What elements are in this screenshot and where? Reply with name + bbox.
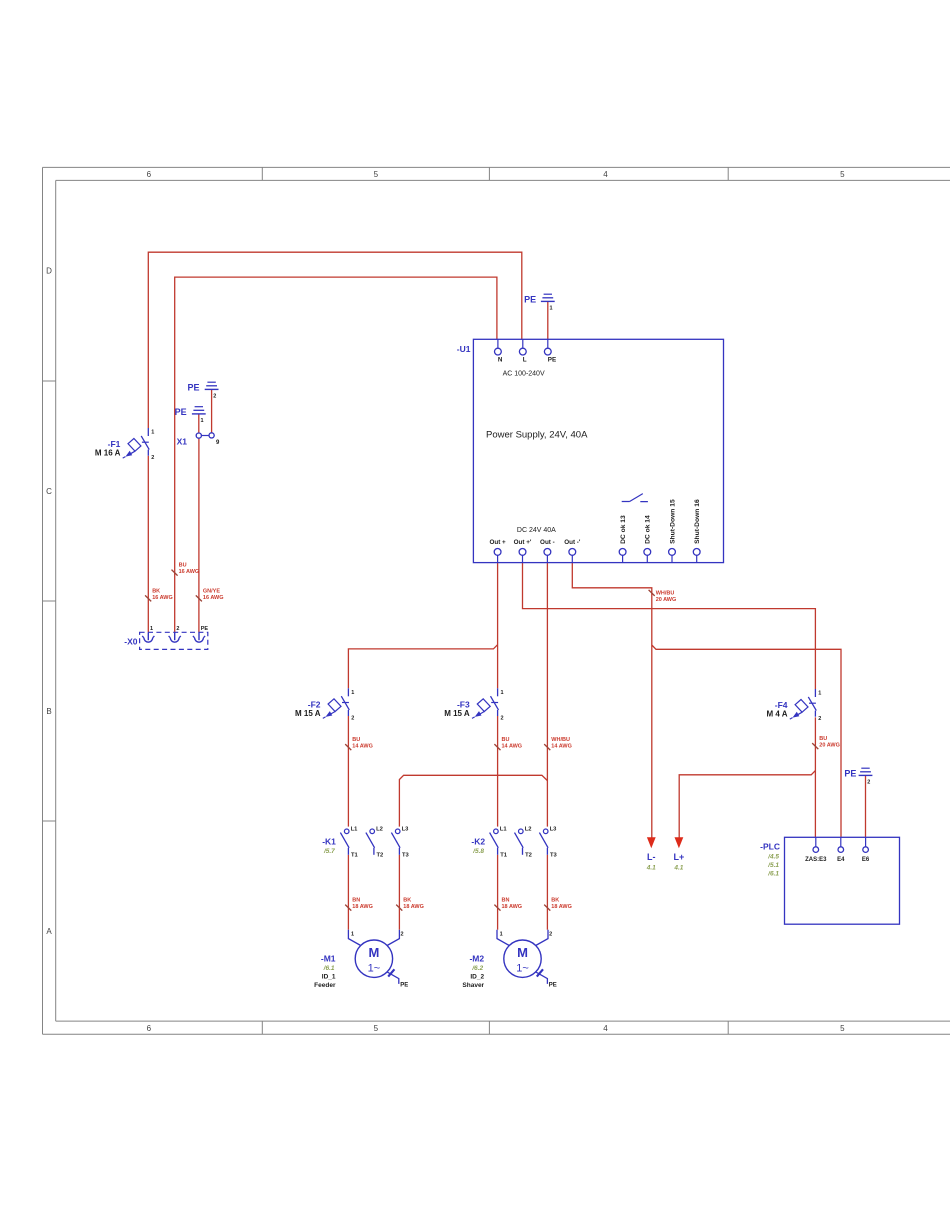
svg-text:Out -: Out - (540, 539, 555, 546)
svg-text:PE: PE (400, 983, 408, 989)
svg-text:L2: L2 (376, 827, 383, 833)
svg-text:4: 4 (603, 170, 608, 179)
svg-text:E4: E4 (837, 857, 845, 863)
svg-text:BK: BK (152, 589, 160, 595)
svg-text:BU: BU (819, 736, 827, 742)
svg-text:16 AWG: 16 AWG (179, 569, 200, 575)
svg-text:L1: L1 (500, 827, 508, 833)
svg-text:-F2: -F2 (308, 699, 321, 709)
svg-text:BU: BU (179, 563, 187, 569)
svg-text:T2: T2 (377, 853, 384, 859)
svg-text:Shaver: Shaver (462, 982, 484, 989)
svg-text:L3: L3 (550, 827, 558, 833)
svg-text:14 AWG: 14 AWG (551, 744, 572, 750)
svg-text:/6.1: /6.1 (323, 965, 335, 972)
svg-text:2: 2 (501, 715, 504, 721)
svg-text:1: 1 (201, 418, 204, 424)
svg-text:L2: L2 (525, 827, 532, 833)
svg-text:Shut-Down 15: Shut-Down 15 (669, 499, 676, 544)
svg-text:-F1: -F1 (108, 439, 121, 449)
svg-text:20 AWG: 20 AWG (656, 597, 677, 603)
svg-text:6: 6 (147, 170, 152, 179)
svg-text:PE: PE (524, 294, 536, 304)
svg-text:18 AWG: 18 AWG (502, 904, 523, 910)
svg-text:1: 1 (818, 691, 821, 697)
svg-text:-K1: -K1 (322, 837, 336, 847)
svg-text:A: A (46, 927, 52, 936)
svg-text:DC ok 14: DC ok 14 (645, 515, 652, 544)
svg-text:16 AWG: 16 AWG (203, 595, 224, 601)
svg-text:L-: L- (647, 852, 656, 862)
svg-text:WH/BU: WH/BU (551, 737, 570, 743)
svg-text:T2: T2 (525, 853, 532, 859)
svg-text:2: 2 (401, 932, 404, 938)
svg-text:1: 1 (500, 932, 503, 938)
svg-text:M: M (517, 945, 528, 960)
svg-text:PE: PE (187, 382, 199, 392)
svg-text:1~: 1~ (368, 962, 381, 974)
svg-text:DC 24V 40A: DC 24V 40A (517, 527, 556, 534)
svg-text:BN: BN (352, 898, 360, 904)
svg-text:/6.1: /6.1 (767, 870, 779, 877)
svg-text:M 4 A: M 4 A (766, 710, 787, 719)
svg-text:5: 5 (374, 170, 379, 179)
svg-text:2: 2 (351, 715, 354, 721)
svg-text:PE: PE (549, 983, 557, 989)
svg-text:-K2: -K2 (471, 837, 485, 847)
svg-text:20 AWG: 20 AWG (819, 743, 840, 749)
svg-text:1: 1 (351, 932, 354, 938)
svg-text:4: 4 (603, 1024, 608, 1033)
svg-text:BK: BK (551, 898, 559, 904)
svg-text:Out +': Out +' (514, 539, 532, 546)
svg-text:4.1: 4.1 (673, 864, 683, 871)
svg-text:2: 2 (213, 394, 216, 400)
svg-text:5: 5 (840, 1024, 845, 1033)
svg-text:5: 5 (374, 1024, 379, 1033)
svg-text:ZAS:E3: ZAS:E3 (805, 857, 827, 863)
svg-text:-X0: -X0 (124, 637, 138, 647)
svg-text:/5.1: /5.1 (767, 862, 779, 869)
svg-text:PE: PE (548, 357, 556, 364)
svg-text:BU: BU (502, 737, 510, 743)
svg-text:Out -': Out -' (564, 539, 581, 546)
svg-text:E6: E6 (862, 857, 870, 863)
svg-text:/5.7: /5.7 (323, 848, 335, 855)
svg-text:DC ok 13: DC ok 13 (620, 515, 627, 544)
svg-text:18 AWG: 18 AWG (352, 904, 373, 910)
svg-text:T3: T3 (550, 853, 558, 859)
svg-text:-PLC: -PLC (760, 841, 780, 851)
svg-text:1: 1 (151, 430, 154, 436)
svg-text:L: L (523, 357, 527, 364)
svg-text:-F4: -F4 (775, 700, 788, 710)
svg-text:14 AWG: 14 AWG (502, 744, 523, 750)
svg-text:T1: T1 (351, 853, 359, 859)
svg-text:PE: PE (175, 407, 187, 417)
svg-text:M 15 A: M 15 A (295, 709, 321, 718)
svg-text:D: D (46, 267, 52, 276)
svg-text:AC 100-240V: AC 100-240V (503, 370, 545, 377)
svg-text:PE: PE (844, 768, 856, 778)
svg-text:-U1: -U1 (457, 344, 471, 354)
svg-text:M: M (368, 945, 379, 960)
svg-text:Out +: Out + (489, 539, 506, 546)
svg-text:T3: T3 (402, 853, 410, 859)
svg-text:ID_1: ID_1 (322, 974, 336, 981)
svg-text:L+: L+ (674, 852, 685, 862)
svg-text:/4.5: /4.5 (767, 853, 779, 860)
svg-text:ID_2: ID_2 (470, 974, 484, 981)
svg-text:18 AWG: 18 AWG (403, 904, 424, 910)
svg-text:14 AWG: 14 AWG (352, 744, 373, 750)
svg-text:M 15 A: M 15 A (444, 709, 470, 718)
svg-text:X1: X1 (177, 436, 188, 446)
svg-text:5: 5 (840, 170, 845, 179)
svg-text:Shut-Down 16: Shut-Down 16 (694, 499, 701, 544)
svg-text:T1: T1 (500, 853, 508, 859)
svg-text:Feeder: Feeder (314, 982, 336, 989)
svg-text:1: 1 (150, 626, 153, 632)
svg-text:4.1: 4.1 (646, 864, 656, 871)
svg-text:Power Supply, 24V, 40A: Power Supply, 24V, 40A (486, 429, 588, 440)
svg-text:18 AWG: 18 AWG (551, 904, 572, 910)
svg-text:BK: BK (403, 898, 411, 904)
svg-text:GN/YE: GN/YE (203, 589, 220, 595)
svg-text:/6.2: /6.2 (471, 965, 483, 972)
svg-text:6: 6 (147, 1024, 152, 1033)
svg-text:M 16 A: M 16 A (95, 449, 121, 458)
svg-text:/5.8: /5.8 (472, 848, 484, 855)
svg-text:2: 2 (151, 455, 154, 461)
svg-text:1: 1 (550, 306, 553, 312)
svg-text:2: 2 (176, 626, 179, 632)
svg-text:BU: BU (352, 737, 360, 743)
svg-text:2: 2 (818, 716, 821, 722)
svg-text:B: B (46, 707, 51, 716)
svg-text:BN: BN (502, 898, 510, 904)
svg-text:1~: 1~ (516, 962, 529, 974)
svg-text:16 AWG: 16 AWG (152, 595, 173, 601)
svg-text:2: 2 (867, 780, 870, 786)
svg-text:L3: L3 (402, 827, 410, 833)
svg-text:PE: PE (201, 626, 209, 632)
svg-text:N: N (498, 357, 503, 364)
svg-text:-M1: -M1 (321, 954, 336, 964)
svg-text:WH/BU: WH/BU (656, 591, 675, 597)
svg-text:1: 1 (501, 690, 504, 696)
svg-text:-M2: -M2 (469, 954, 484, 964)
svg-text:-F3: -F3 (457, 699, 470, 709)
svg-text:C: C (46, 487, 52, 496)
svg-text:2: 2 (549, 932, 552, 938)
svg-text:L1: L1 (351, 827, 359, 833)
svg-text:1: 1 (351, 690, 354, 696)
